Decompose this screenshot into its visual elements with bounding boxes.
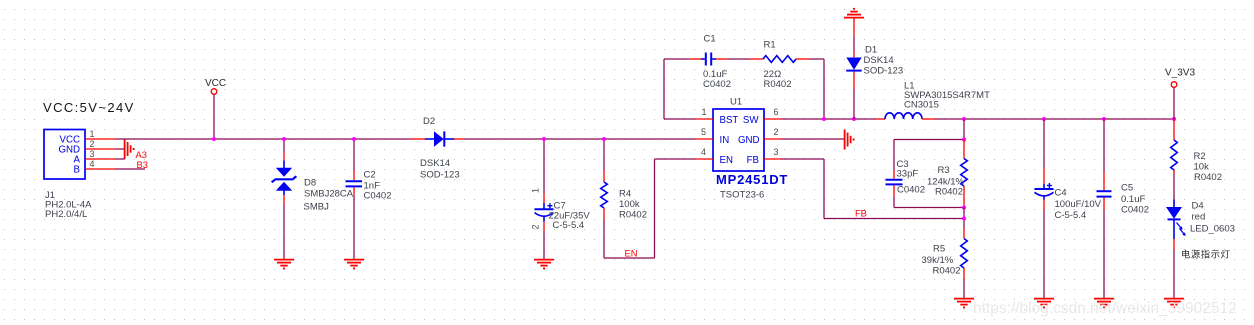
svg-text:4: 4 [90,159,95,169]
svg-text:DSK14: DSK14 [420,158,450,169]
wire J1 pin4 [115,168,145,170]
resistor R1 [750,56,809,63]
svg-text:C5: C5 [1121,183,1133,194]
resistor R4 [601,170,608,220]
wire EN horizontal [604,257,655,259]
junction at C7 branch [542,137,546,141]
svg-text:R3: R3 [938,165,950,176]
connector J1 body [44,130,85,180]
svg-text:R2: R2 [1194,151,1206,162]
wire SW rail [781,118,876,120]
diode D1 [846,58,861,90]
svg-text:R0402: R0402 [764,79,792,90]
svg-text:1: 1 [531,188,541,193]
U1 pin 6 stub [764,118,781,120]
svg-text:D4: D4 [1192,201,1204,212]
svg-text:FB: FB [747,155,759,166]
D1 anode stub [853,50,855,57]
resistor R5 [961,228,968,279]
svg-text:SMBJ: SMBJ [304,202,330,213]
svg-text:100uF/10V: 100uF/10V [1055,199,1102,210]
wire EN to U1 pin4 [655,158,697,160]
junction FB wire [962,217,966,221]
junction SW and D1 [852,117,856,121]
svg-text:TSOT23-6: TSOT23-6 [720,190,764,201]
ground rotated at U1 GND pin [845,130,854,150]
ground below C5 [1094,299,1114,308]
wire R3 column upper [963,119,965,140]
wire R2 to D4 [1173,173,1175,200]
svg-text:C4: C4 [1055,188,1067,199]
wire V_3V3 stem [1173,87,1175,119]
wire D4 to ground [1173,250,1175,299]
wire FB horizontal [824,218,964,220]
ground below R5 [954,299,974,308]
junction SW and BST loop [822,117,826,121]
junction at D8 branch [282,137,286,141]
svg-text:https://blog.csdn.net/weixin_3: https://blog.csdn.net/weixin_39902512 [973,300,1237,317]
ground below C4 [1034,299,1054,308]
svg-text:100k: 100k [619,199,640,210]
svg-text:R1: R1 [764,40,776,51]
power symbol V_3V3 [1165,68,1195,88]
svg-text:EN: EN [720,155,733,166]
svg-text:C0402: C0402 [364,191,392,202]
svg-text:电源指示灯: 电源指示灯 [1181,249,1231,260]
svg-text:3: 3 [90,149,95,159]
ground rotated at J1 pin2 [125,139,134,159]
wire D1 lower [853,89,855,119]
svg-text:2: 2 [531,224,541,229]
capacitor C2 [346,170,363,196]
TVS diode D8 [272,152,297,205]
svg-text:1: 1 [702,107,707,117]
svg-text:C0402: C0402 [1121,205,1149,216]
svg-text:MP2451DT: MP2451DT [716,172,788,187]
wire C7 branch upper [543,139,545,193]
svg-text:R0402: R0402 [933,266,961,277]
svg-text:C2: C2 [364,170,376,181]
capacitor C1 [690,53,727,66]
svg-text:red: red [1192,212,1206,223]
wire main input rail right [464,138,696,140]
svg-text:R0402: R0402 [619,210,647,221]
wire C3 loop left lower [893,197,895,208]
svg-text:3: 3 [774,147,779,157]
wire D8 branch upper [283,139,285,152]
svg-text:0.1uF: 0.1uF [1121,194,1145,205]
wire D1 upper stem red stub [853,18,855,37]
wire J1 pin3 [115,158,125,160]
svg-text:SW: SW [743,115,759,126]
wire D1 upper stem [853,37,855,51]
svg-text:CN3015: CN3015 [904,100,939,111]
wire C3 loop bottom [894,207,964,209]
svg-text:R4: R4 [619,189,631,200]
svg-text:33pF: 33pF [897,169,919,180]
wire BST loop top left [664,58,690,60]
U1 pin 3 stub [764,158,781,160]
resistor R3 [961,140,968,208]
svg-text:C-5-5.4: C-5-5.4 [553,220,585,231]
svg-text:SOD-123: SOD-123 [420,170,460,181]
J1 pin 2 stub [85,148,115,150]
wire BST loop top right [809,58,824,60]
svg-text:R0402: R0402 [935,187,963,198]
wire C5 branch upper [1103,119,1105,172]
U1 pin 5 stub [696,138,713,140]
LED D4 [1166,200,1186,251]
ground below C2 [344,260,364,269]
wire R4 bottom to EN run [603,220,605,258]
U1 pin 4 stub [696,158,713,160]
J1 pin 1 stub [85,138,115,140]
junction R3 bottom loop [962,206,966,210]
J1 pin 4 stub [85,168,115,170]
wire BST loop right vertical [823,59,825,119]
junction output and V_3V3 [1172,117,1176,121]
inductor L1 [876,113,935,119]
capacitor C5 [1097,172,1112,210]
wire BST loop left vertical [663,59,665,119]
wire C2 branch lower [353,196,355,260]
svg-text:39k/1%: 39k/1% [922,255,954,266]
U1 pin 2 stub [764,138,781,140]
svg-text:B3: B3 [137,160,148,170]
wire FB vertical [823,159,825,219]
svg-text:SMBJ28CA: SMBJ28CA [304,189,354,200]
svg-text:U1: U1 [730,97,742,108]
junction output and R3 column [962,117,966,121]
polarized capacitor C7 [535,193,554,231]
junction at R4 branch [602,137,606,141]
wire D8 branch lower [283,205,285,260]
wire C4 to ground [1043,210,1045,299]
wire C3 loop top [894,139,964,141]
junction R3 top loop [962,138,966,142]
svg-text:C-5-5.4: C-5-5.4 [1055,210,1087,221]
ground below D8 [274,260,294,269]
ground below C7 [534,260,554,269]
junction at VCC stem [212,137,216,141]
svg-text:1: 1 [90,129,95,139]
svg-text:6: 6 [774,107,779,117]
wire C2 branch upper [353,139,355,170]
svg-text:VCC: VCC [205,78,226,89]
svg-text:D1: D1 [865,45,877,56]
wire R4 branch upper [603,139,605,170]
wire FB pin run [781,158,824,160]
wire R3 bottom to FB [963,208,965,229]
svg-text:2: 2 [90,139,95,149]
junction at C2 branch [352,137,356,141]
op-amp U1 body MP2451DT [713,109,764,171]
ground below D4 [1164,299,1184,308]
svg-text:2: 2 [774,127,779,137]
wire R5 to ground [963,279,965,299]
wire main input rail left [115,138,412,140]
svg-text:FB: FB [855,209,867,219]
svg-text:R5: R5 [933,244,945,255]
svg-text:EN: EN [625,249,638,259]
svg-text:IN: IN [720,135,730,146]
svg-text:A3: A3 [136,150,147,160]
svg-text:GND: GND [738,135,760,146]
wire EN vertical [654,159,656,258]
capacitor C3 [886,170,903,197]
junction output and C4 [1042,117,1046,121]
wire C7 branch lower [543,231,545,260]
diode D2 [412,131,464,146]
wire GND pin to ground [781,138,845,140]
power symbol VCC [205,78,226,94]
svg-text:4: 4 [701,147,706,157]
J1 pin 3 stub [85,158,115,160]
wire output rail [935,118,1174,120]
wire C5 to ground [1103,210,1105,299]
wire C3 loop left upper [893,140,895,171]
resistor R2 [1171,119,1178,173]
svg-text:PH2.0/4/L: PH2.0/4/L [45,209,87,220]
svg-text:C1: C1 [704,34,716,45]
svg-text:C0402: C0402 [703,79,731,90]
wire C4 branch upper [1043,119,1045,168]
svg-text:D2: D2 [423,116,435,127]
svg-text:VCC:5V~24V: VCC:5V~24V [43,100,135,115]
wire C1 to R1 [727,58,750,60]
wire BST loop left horizontal [664,118,696,120]
svg-text:SOD-123: SOD-123 [864,66,904,77]
svg-text:R0402: R0402 [1194,172,1222,183]
U1 pin 1 stub [696,118,713,120]
wire VCC stem [213,94,215,139]
svg-text:10k: 10k [1194,162,1210,173]
svg-text:LED_0603: LED_0603 [1190,224,1235,235]
svg-text:B: B [74,164,80,175]
polarized capacitor C4 [1035,168,1054,210]
svg-text:5: 5 [701,127,706,137]
svg-text:BST: BST [720,115,739,126]
junction output and C5 [1102,117,1106,121]
svg-text:V_3V3: V_3V3 [1165,68,1195,79]
svg-text:D8: D8 [304,178,316,189]
ground inverted above D1 [844,9,864,18]
svg-text:DSK14: DSK14 [864,55,894,66]
wire J1 pin2 to ground [115,148,125,150]
svg-text:C0402: C0402 [897,185,925,196]
